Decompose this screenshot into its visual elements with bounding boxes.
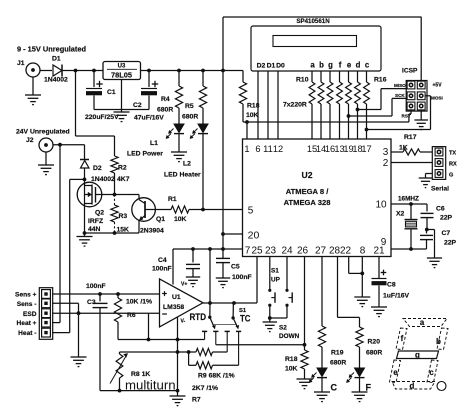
svg-text:c: c [429,368,434,377]
svg-text:26: 26 [297,246,309,257]
svg-text:C4: C4 [158,257,167,264]
svg-text:RX: RX [449,162,457,168]
svg-text:23: 23 [265,246,277,257]
svg-text:D1: D1 [267,63,276,70]
svg-text:100nF: 100nF [86,283,106,290]
svg-text:IRFZ: IRFZ [88,218,103,225]
svg-text:15K: 15K [117,227,130,234]
svg-text:Sens -: Sens - [17,301,37,308]
svg-text:4K7: 4K7 [117,176,130,183]
svg-text:C1: C1 [107,89,116,96]
svg-text:Q1: Q1 [156,216,165,223]
svg-text:11: 11 [263,144,273,154]
svg-text:DOWN: DOWN [279,333,300,340]
svg-text:680R: 680R [157,107,173,114]
svg-text:R3: R3 [119,213,128,220]
svg-text:24V Unregulated: 24V Unregulated [16,129,70,136]
svg-text:10K: 10K [246,112,259,119]
svg-text:D0: D0 [276,63,285,70]
svg-text:1N4002: 1N4002 [44,77,68,84]
svg-text:R17: R17 [404,134,417,141]
svg-text:g: g [415,351,420,360]
svg-text:S1: S1 [271,268,279,275]
svg-text:RTD: RTD [190,312,207,323]
svg-text:R7: R7 [192,397,201,404]
svg-text:10: 10 [375,200,387,211]
svg-text:UP: UP [271,277,281,284]
svg-text:U2: U2 [302,170,313,180]
svg-text:680R: 680R [182,114,198,121]
svg-text:ESD: ESD [23,311,37,318]
svg-text:Heat +: Heat + [17,320,37,327]
svg-text:+: + [162,289,167,299]
svg-text:e: e [347,61,352,70]
svg-text:6: 6 [255,144,260,154]
svg-text:ATMEGA 8 /: ATMEGA 8 / [286,187,330,196]
svg-text:R10: R10 [296,77,309,84]
svg-text:Sens +: Sens + [15,292,37,299]
svg-text:R20: R20 [368,339,381,346]
svg-text:Heat -: Heat - [18,330,36,337]
svg-text:D2: D2 [257,63,266,70]
svg-text:U1: U1 [172,294,181,301]
svg-text:U3: U3 [118,64,126,70]
svg-text:e: e [393,368,398,377]
svg-text:SCK: SCK [395,93,405,98]
svg-text:R19: R19 [331,350,344,357]
svg-text:C3: C3 [87,299,96,306]
svg-text:12: 12 [273,144,283,154]
svg-text:SP410561N: SP410561N [296,18,330,25]
svg-text:47uF/16V: 47uF/16V [134,115,164,122]
svg-text:1N4002: 1N4002 [91,176,115,183]
svg-text:16MHZ: 16MHZ [398,196,419,203]
svg-text:G: G [449,173,453,179]
svg-text:+5V: +5V [433,83,443,89]
svg-text:R16: R16 [374,77,387,84]
svg-text:a: a [420,318,425,327]
svg-text:680R: 680R [366,350,382,357]
svg-text:220uF/25V: 220uF/25V [85,114,119,121]
svg-text:2: 2 [383,158,389,169]
svg-text:b: b [436,337,441,346]
svg-text:J1: J1 [17,60,25,67]
svg-text:c: c [365,61,370,70]
svg-text:10K /1%: 10K /1% [126,299,152,306]
svg-text:C2: C2 [133,102,142,109]
svg-text:C8: C8 [387,282,396,289]
svg-text:D2: D2 [93,165,102,172]
svg-text:C7: C7 [442,230,451,237]
svg-text:R2: R2 [118,165,127,172]
svg-text:Q2: Q2 [95,210,104,217]
svg-text:d: d [410,382,415,391]
svg-text:LED Power: LED Power [127,151,163,158]
svg-text:L2: L2 [183,161,191,168]
svg-text:a: a [310,61,315,70]
svg-text:ICSP: ICSP [402,68,418,75]
svg-text:44N: 44N [88,226,101,233]
svg-text:R18: R18 [285,356,298,363]
svg-text:V-: V- [181,319,186,325]
svg-text:S2: S2 [279,325,287,332]
svg-text:F: F [366,383,372,393]
svg-text:R1: R1 [168,196,177,203]
svg-text:7x220R: 7x220R [283,102,307,109]
svg-text:R5: R5 [185,103,194,110]
svg-text:C6: C6 [436,206,445,213]
svg-text:100nF: 100nF [152,266,172,273]
svg-text:R18: R18 [247,103,260,110]
svg-text:R9 68K /1%: R9 68K /1% [198,373,235,380]
svg-text:LM358: LM358 [163,304,184,311]
svg-text:TX: TX [449,151,456,157]
svg-text:28: 28 [329,246,341,257]
svg-text:2N3904: 2N3904 [140,228,164,235]
svg-text:X2: X2 [396,211,405,218]
svg-text:7: 7 [245,246,251,257]
svg-text:Serial: Serial [431,186,449,193]
svg-text:100nF: 100nF [232,274,252,281]
svg-text:9: 9 [381,237,387,248]
svg-text:V+: V+ [181,282,187,288]
svg-text:22P: 22P [444,240,457,247]
svg-text:C: C [331,383,338,393]
svg-text:RST: RST [402,114,411,119]
svg-text:J2: J2 [26,137,34,144]
svg-text:1uF/16V: 1uF/16V [383,293,410,300]
svg-text:8: 8 [360,246,366,257]
svg-text:27: 27 [315,246,327,257]
svg-text:d: d [356,61,361,70]
svg-text:C5: C5 [231,264,240,271]
svg-text:17: 17 [361,144,371,154]
svg-text:R6: R6 [127,312,136,319]
svg-text:1: 1 [244,144,249,154]
svg-text:MISO: MISO [394,83,406,88]
svg-text:22: 22 [340,246,352,257]
svg-text:R4: R4 [161,96,170,103]
svg-text:3: 3 [383,147,389,158]
svg-text:L1: L1 [150,140,158,147]
svg-text:680R: 680R [330,360,346,367]
svg-text:TC: TC [240,313,251,324]
svg-text:D1: D1 [52,56,61,63]
svg-text:5: 5 [248,206,254,217]
svg-text:10K: 10K [174,216,187,223]
svg-text:24: 24 [281,246,293,257]
svg-text:LED Heater: LED Heater [164,172,201,179]
svg-text:MOSI: MOSI [431,96,443,101]
svg-text:2K7 /1%: 2K7 /1% [192,385,218,392]
svg-text:9 - 15V Unregulated: 9 - 15V Unregulated [17,45,86,54]
svg-text:ATMEGA 328: ATMEGA 328 [284,198,331,207]
svg-text:20: 20 [248,230,260,242]
svg-text:g: g [328,61,333,70]
svg-text:22P: 22P [440,215,453,222]
svg-text:10K: 10K [285,366,298,373]
svg-text:f: f [401,334,404,343]
svg-text:78L05: 78L05 [111,71,132,80]
svg-text:b: b [319,61,324,70]
svg-text:f: f [339,61,342,70]
svg-text:25: 25 [251,246,263,257]
